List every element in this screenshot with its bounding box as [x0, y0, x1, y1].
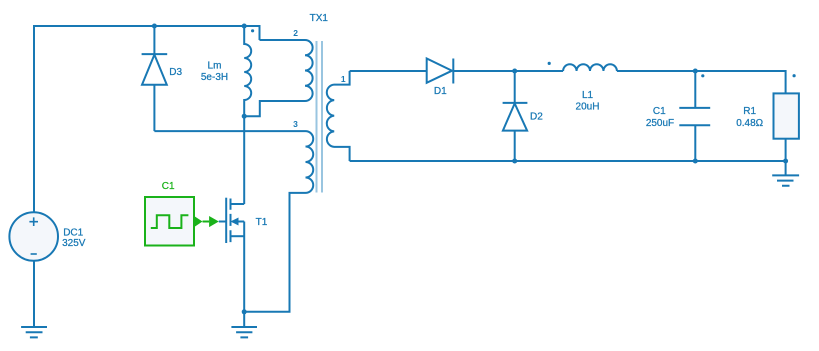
svg-text:2: 2	[293, 28, 298, 38]
diode D2 triangle	[503, 103, 527, 130]
node D2 bottom junction	[512, 159, 517, 164]
diode D2 bottom lead	[514, 131, 516, 161]
source DC1 circle	[9, 212, 58, 261]
svg-text:TX1: TX1	[310, 13, 329, 24]
arrowhead 1	[194, 216, 203, 228]
transistor T1 channel segments	[230, 199, 232, 243]
diode D2 top lead	[514, 71, 516, 103]
wire D1 to L1	[453, 70, 563, 72]
svg-text:R1: R1	[743, 106, 756, 117]
ground under T1	[231, 312, 257, 338]
wire L1 to R1 corner	[617, 71, 786, 93]
diode D3 top lead	[153, 26, 155, 54]
svg-text:L1: L1	[582, 90, 594, 101]
svg-text:D2: D2	[530, 112, 543, 123]
diode D2 cathode bar	[503, 102, 528, 104]
node C1 top junction	[693, 69, 698, 74]
svg-text:5e-3H: 5e-3H	[201, 72, 228, 83]
DC1 plus sign	[29, 217, 38, 226]
transformer winding 3 (reset) with bottom lead to T1 source node	[244, 131, 313, 312]
transistor T1 gate bar	[225, 198, 227, 243]
diode D1 cathode bar	[452, 59, 454, 84]
node Lm top junction	[242, 24, 247, 29]
wire top-left rail and left vertical	[34, 26, 260, 212]
resistor R1 body	[774, 93, 799, 138]
inductor Lm	[244, 26, 251, 116]
transistor T1 gate lead	[219, 221, 226, 223]
svg-text:325V: 325V	[62, 238, 86, 249]
polarity dot winding 2	[251, 29, 254, 32]
node Lm bottom junction	[242, 114, 247, 119]
pulse waveform	[151, 215, 189, 228]
svg-text:D1: D1	[434, 86, 447, 97]
polarity dot C1	[701, 74, 704, 77]
svg-text:DC1: DC1	[63, 227, 83, 238]
diode D3 triangle	[142, 55, 167, 85]
node R1 bottom junction	[783, 159, 788, 164]
wire top rail secondary to D1	[350, 70, 427, 72]
node T1 source junction	[242, 309, 247, 314]
diode D3 cathode bar	[142, 53, 168, 55]
transistor T1 body arrow	[231, 218, 239, 226]
transformer winding 2 (primary) with bottom step wire	[244, 40, 312, 116]
svg-text:0.48Ω: 0.48Ω	[736, 118, 763, 129]
wire T1 drain to Lm bottom node	[243, 116, 245, 204]
transistor T1 drain lead	[231, 203, 245, 205]
wire D3 to winding 3	[154, 130, 305, 132]
svg-text:20uH: 20uH	[576, 101, 600, 112]
resistor R1 bottom lead	[785, 139, 787, 161]
capacitor C1 bottom lead	[694, 125, 696, 161]
diode D3 bottom lead	[153, 85, 155, 131]
node C1 bottom junction	[693, 159, 698, 164]
wire DC1 bottom to ground	[33, 261, 35, 327]
node D3 top junction	[152, 24, 157, 29]
ground under R1	[772, 161, 799, 186]
transistor T1 source vertical	[243, 222, 245, 312]
svg-text:250uF: 250uF	[646, 118, 674, 129]
wire bottom rail	[350, 160, 786, 162]
node D2 top junction	[512, 69, 517, 74]
svg-text:1: 1	[341, 74, 346, 84]
svg-text:D3: D3	[169, 67, 182, 78]
transistor T1 body lead	[232, 221, 244, 223]
transistor T1 source lead	[231, 235, 245, 237]
transformer TX1 core	[317, 41, 323, 193]
svg-text:C1: C1	[653, 106, 666, 117]
svg-text:T1: T1	[256, 217, 268, 228]
inductor L1	[563, 64, 617, 71]
diode D1 triangle	[427, 59, 452, 83]
arrow connector line	[203, 221, 210, 223]
polarity dot L1	[548, 62, 551, 65]
polarity dot R1	[793, 74, 796, 77]
svg-text:C1: C1	[162, 181, 175, 192]
pulse source C1 box	[145, 197, 209, 246]
DC1 minus sign	[31, 253, 37, 255]
capacitor C1 plates	[679, 108, 710, 125]
svg-text:3: 3	[293, 119, 298, 129]
ground under DC1	[21, 327, 47, 337]
arrowhead 2	[209, 216, 219, 227]
transformer winding 1 (secondary) with step leads	[327, 71, 350, 161]
capacitor C1 top lead	[694, 71, 696, 108]
svg-text:Lm: Lm	[208, 61, 222, 72]
